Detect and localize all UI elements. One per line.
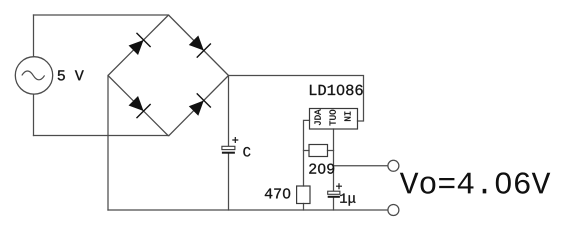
voltage source V1 circle — [15, 57, 52, 94]
wire bridge right vertex down to capacitor C — [228, 76, 230, 147]
bridge edge wires — [108, 15, 229, 136]
diode D2 top-right — [189, 36, 211, 58]
wire top rail from source to bridge top — [34, 14, 169, 16]
wire bottom ground rail — [108, 209, 388, 211]
wire 209 resistor left lead — [304, 150, 310, 152]
wire 209 resistor right lead — [328, 150, 334, 152]
wire 470 resistor bottom to ground rail — [303, 204, 305, 211]
output terminal bottom — [388, 205, 399, 216]
wire left rail source top — [33, 15, 35, 57]
label 1u — [340, 193, 355, 205]
pin label IN — [344, 112, 350, 121]
diode D1 top-left — [129, 33, 151, 55]
voltage source V1 sine symbol — [22, 71, 45, 80]
label 5 V — [58, 70, 84, 80]
label 470 — [265, 188, 290, 198]
label 209 — [309, 164, 334, 174]
wire AC bottom horizontal to bridge bottom vertex — [34, 135, 169, 137]
diode D3 bottom-left — [129, 96, 151, 118]
capacitor C polarized — [222, 137, 238, 153]
wire bridge right vertex to regulator IN — [229, 76, 364, 122]
pin label OUT — [329, 110, 335, 126]
label Vo=4.06V — [400, 172, 550, 193]
resistor R1 209 — [309, 145, 328, 157]
wire output node to top terminal — [334, 165, 388, 167]
capacitor C2 1u polarized — [328, 183, 342, 197]
label LD1086 — [310, 85, 363, 95]
wire capacitor C bottom to ground rail — [228, 153, 230, 210]
resistor R2 470 — [297, 186, 310, 204]
regulator U1 pin box — [310, 109, 358, 130]
wire 1u capacitor bottom to ground rail — [333, 197, 335, 210]
wire OUT pin down to 1u capacitor — [333, 129, 335, 191]
label C — [243, 147, 250, 157]
output terminal top — [388, 160, 399, 171]
wire bridge left vertex drop — [107, 76, 109, 211]
wire ADJ pin stub and ADJ net down — [304, 120, 310, 186]
diode D4 bottom-right — [189, 93, 211, 115]
wire source bottom to AC node — [33, 94, 35, 135]
pin label ADJ — [315, 109, 321, 125]
